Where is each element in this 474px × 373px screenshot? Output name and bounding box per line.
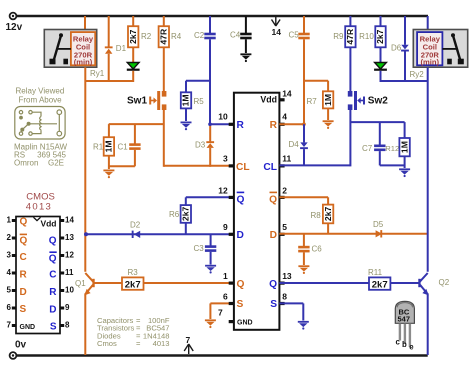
resistor R12 1M with ground (385, 122, 410, 168)
resistor R10 2k7 (359, 16, 386, 47)
svg-text:S: S (270, 299, 277, 310)
wire relay Ry1 coil down to Q1 collector (84, 67, 86, 272)
svg-text:Cmos: Cmos (97, 339, 117, 348)
svg-text:7: 7 (186, 335, 191, 345)
wire relay Ry2 coil down to Q2 collector (427, 67, 429, 272)
ground under R5 (181, 122, 192, 131)
svg-text:R6: R6 (169, 210, 180, 219)
svg-text:47R: 47R (159, 28, 169, 45)
svg-text:R11: R11 (368, 268, 383, 277)
node 0v rail (10, 339, 428, 359)
resistor R7 1M with ground (304, 81, 333, 120)
wire 12v rail to relay Ry2 coil (427, 16, 429, 31)
pinout stubs right (60, 219, 65, 327)
resistor R3 2k7 (122, 268, 144, 291)
IC pin labels right column (260, 95, 277, 310)
svg-text:4: 4 (7, 268, 12, 277)
svg-text:S: S (20, 304, 27, 315)
relay top view drawing (15, 107, 65, 140)
svg-text:4: 4 (282, 112, 287, 122)
relay Ry1 (44, 30, 96, 68)
svg-text:Q: Q (20, 217, 28, 228)
wire pin 5 D to Q2 collector node (long) (279, 233, 427, 235)
svg-text:R2: R2 (141, 32, 152, 41)
svg-text:D: D (237, 230, 244, 241)
svg-text:S: S (237, 299, 244, 310)
svg-text:D3: D3 (195, 140, 206, 149)
svg-text:D4: D4 (289, 140, 300, 149)
svg-text:e: e (409, 343, 414, 352)
capacitor C6 with ground (298, 234, 322, 265)
svg-text:Q: Q (237, 279, 245, 290)
LED indicator (left, green) (127, 47, 140, 82)
svg-text:D6: D6 (391, 44, 402, 53)
svg-text:6: 6 (7, 303, 12, 312)
resistor R5 1M with ground (181, 81, 210, 121)
wire pin 1 Q output to R3 (94, 282, 234, 284)
svg-text:CL: CL (236, 162, 250, 173)
svg-text:GND: GND (237, 320, 253, 327)
svg-text:(min): (min) (74, 58, 93, 67)
resistor R8 2k7 (311, 205, 334, 234)
junction dot on Ry1 coil line (84, 232, 88, 236)
svg-text:1M: 1M (181, 94, 191, 106)
svg-text:12: 12 (218, 185, 228, 195)
pinout labels right (Vdd + FF2 blue) (40, 219, 57, 333)
wire C7/R12 bottom junction (380, 164, 405, 166)
svg-text:=: = (136, 339, 141, 348)
svg-text:7: 7 (7, 320, 12, 329)
pinout numbers right (65, 215, 74, 329)
svg-text:C7: C7 (362, 144, 373, 153)
node 12v supply rail (6, 13, 429, 33)
svg-text:D2: D2 (130, 220, 141, 229)
ground under R7 (323, 120, 334, 129)
resistor R2 2k7 (128, 16, 152, 47)
svg-text:Sw1: Sw1 (127, 95, 147, 106)
wire Sw1 node to R1/C1 (109, 123, 164, 125)
svg-text:S: S (50, 322, 57, 333)
svg-text:D5: D5 (373, 220, 384, 229)
ground under C6 (298, 265, 309, 274)
svg-text:R7: R7 (307, 97, 318, 106)
wire R4 to Sw1 (163, 47, 165, 91)
svg-text:13: 13 (65, 233, 74, 242)
wire pin 8 S to ground (279, 303, 303, 320)
svg-text:C: C (49, 270, 56, 281)
svg-text:9: 9 (65, 303, 70, 312)
ground under R1 (103, 170, 114, 179)
pin 7 marker arrow on 0v rail (184, 344, 193, 354)
svg-text:2: 2 (7, 233, 12, 242)
pinout stubs left (12, 219, 17, 327)
svg-text:From Above: From Above (19, 96, 63, 105)
note relay part numbers (14, 142, 68, 167)
diode D1 (flyback) (105, 16, 127, 82)
svg-text:Q2: Q2 (439, 278, 450, 287)
svg-text:547: 547 (398, 315, 411, 324)
svg-text:2k7: 2k7 (128, 29, 138, 44)
ground under pin 6 wire (205, 319, 216, 328)
svg-text:c: c (396, 338, 401, 347)
LED indicator (right, green) (374, 47, 387, 82)
ground under pin 8 wire (298, 321, 309, 330)
svg-text:11: 11 (65, 268, 74, 277)
notch (34, 217, 41, 220)
svg-text:8: 8 (65, 320, 70, 329)
pin stubs left (229, 123, 234, 324)
svg-text:Q: Q (269, 194, 277, 205)
svg-text:R9: R9 (333, 32, 344, 41)
svg-text:2: 2 (282, 185, 287, 195)
junction dot pin4 node (302, 122, 306, 126)
svg-text:C4: C4 (230, 31, 241, 40)
svg-text:10: 10 (65, 285, 74, 294)
svg-text:R8: R8 (311, 211, 322, 220)
svg-text:2k7: 2k7 (375, 29, 385, 44)
resistor R1 1M (93, 124, 114, 169)
wire pin 4 R to C5 node (279, 123, 304, 125)
svg-text:4013: 4013 (153, 339, 170, 348)
svg-text:CL: CL (263, 162, 277, 173)
wire junction horizontal coil/D1/LED node (85, 80, 133, 82)
svg-text:2k7: 2k7 (372, 280, 388, 291)
relay Ry2 (413, 30, 467, 68)
svg-text:D: D (270, 230, 277, 241)
diode D5 (373, 220, 384, 238)
wire Sw2 down to pin 11 line (349, 110, 351, 166)
svg-text:D1: D1 (116, 44, 127, 53)
switch Sw2 (push-to-make) (348, 91, 388, 110)
svg-text:R12: R12 (385, 144, 399, 153)
svg-text:Q: Q (49, 236, 57, 247)
svg-text:R: R (49, 287, 57, 298)
svg-text:Q: Q (49, 254, 57, 265)
svg-text:8: 8 (282, 291, 287, 301)
resistor R11 2k7 (368, 268, 390, 291)
svg-text:R1: R1 (93, 143, 104, 152)
pinout numbers left (7, 215, 12, 329)
svg-text:14: 14 (272, 27, 282, 37)
svg-text:9: 9 (223, 222, 228, 232)
IC U1 CMOS 4013 body (234, 93, 280, 330)
capacitor C3 with ground (194, 234, 217, 264)
svg-text:Vdd: Vdd (260, 95, 277, 105)
svg-text:(min): (min) (421, 58, 440, 67)
svg-text:C6: C6 (312, 245, 323, 254)
diode D3 (195, 124, 214, 167)
svg-text:R: R (270, 120, 278, 131)
wire pin 9 D input (long) (86, 233, 234, 235)
svg-text:R3: R3 (128, 268, 139, 277)
svg-text:3: 3 (7, 250, 12, 259)
svg-text:1M: 1M (104, 140, 114, 152)
svg-text:12v: 12v (6, 22, 23, 33)
wire pin 3 CL input (164, 165, 234, 167)
svg-text:G2E: G2E (48, 159, 64, 168)
svg-text:C2: C2 (194, 31, 205, 40)
svg-text:1M: 1M (399, 141, 409, 153)
wire pin 13 Q to R11 (279, 282, 418, 284)
wire Q1 emitter to 0v (84, 294, 86, 356)
svg-text:GND: GND (20, 324, 36, 331)
svg-text:D: D (49, 305, 56, 316)
wire Sw2 node to C7/R12 (350, 121, 404, 123)
svg-text:Ry1: Ry1 (90, 69, 105, 78)
svg-text:12: 12 (65, 250, 74, 259)
svg-text:C1: C1 (118, 143, 129, 152)
capacitor C5 (289, 16, 310, 124)
svg-text:0v: 0v (15, 339, 27, 350)
wire Q2 emitter to 0v (427, 294, 429, 356)
svg-text:C3: C3 (194, 244, 205, 253)
wire pin 2 to R8 (279, 197, 328, 205)
resistor R6 2k7 (169, 205, 191, 234)
svg-text:R10: R10 (359, 32, 374, 41)
svg-text:1M: 1M (323, 94, 333, 106)
diode D4 (289, 124, 308, 165)
transistor Q1 (84, 273, 94, 295)
pin numbers left (218, 112, 228, 318)
wire R9 to Sw2 (349, 47, 351, 91)
wire R1 to C1 bottom junction (109, 165, 135, 167)
svg-text:R: R (237, 120, 245, 131)
svg-text:Q: Q (20, 236, 28, 247)
wire 12v rail to relay Ry1 coil (84, 16, 86, 31)
svg-text:14: 14 (65, 215, 74, 224)
svg-text:11: 11 (282, 153, 291, 163)
svg-text:7: 7 (218, 308, 223, 318)
ground under R12 (399, 168, 410, 177)
pinout labels left (FF1 orange) (20, 217, 28, 316)
svg-text:5: 5 (7, 285, 12, 294)
switch Sw1 (push-to-make) (127, 91, 166, 110)
svg-text:R4: R4 (171, 32, 182, 41)
svg-text:Relay Viewed: Relay Viewed (16, 87, 65, 96)
note CMOS 4013 title (26, 192, 55, 213)
svg-text:Q: Q (269, 279, 277, 290)
ground under C3 (205, 265, 216, 274)
svg-text:D: D (20, 287, 27, 298)
svg-text:5: 5 (282, 222, 287, 232)
svg-text:C5: C5 (289, 31, 300, 40)
resistor R4 47R (159, 16, 182, 47)
resistor R9 47R (333, 16, 355, 47)
svg-text:Q1: Q1 (75, 279, 86, 288)
wire Sw1 down to CL line (163, 110, 165, 167)
capacitor C1 (118, 124, 141, 166)
svg-text:1: 1 (7, 215, 12, 224)
svg-text:Q: Q (237, 194, 245, 205)
capacitor C2 (194, 16, 216, 124)
junction dot pin10 node (208, 122, 212, 126)
wire pin 11 CL to Sw2 (279, 164, 349, 166)
capacitor C4 with ground (230, 16, 252, 53)
wire pin 6 S to ground (210, 303, 234, 319)
svg-text:R5: R5 (194, 97, 205, 106)
svg-text:2k7: 2k7 (323, 207, 333, 222)
note relay viewed from above (16, 87, 65, 105)
diode D2 (130, 220, 141, 238)
svg-text:Omron: Omron (14, 159, 38, 168)
IC pin labels left column (236, 120, 250, 310)
svg-text:13: 13 (282, 271, 292, 281)
svg-text:1: 1 (223, 271, 228, 281)
svg-text:2k7: 2k7 (125, 280, 141, 291)
svg-text:47R: 47R (345, 28, 355, 45)
svg-text:b: b (402, 340, 407, 349)
pin 14 marker arrow on 12v rail (272, 17, 281, 26)
transistor Q2 (418, 273, 428, 295)
svg-text:Ry2: Ry2 (410, 70, 425, 79)
svg-text:Vdd: Vdd (40, 219, 56, 229)
wire pin 10 R input (210, 123, 234, 125)
ground under C4 (240, 53, 251, 62)
wire junction horizontal LED/D6/coil node (381, 80, 428, 82)
svg-text:14: 14 (282, 89, 292, 99)
pin stubs right (279, 98, 284, 305)
svg-text:3: 3 (223, 153, 228, 163)
diode D6 (flyback) (391, 16, 409, 82)
pin numbers right (282, 89, 292, 302)
svg-text:C: C (20, 252, 27, 263)
transistor BC547 package drawing (395, 301, 414, 351)
wire pin 12 to R6 (186, 197, 234, 206)
svg-text:R: R (20, 270, 28, 281)
svg-text:4013: 4013 (26, 201, 52, 212)
svg-text:2k7: 2k7 (181, 207, 191, 222)
svg-text:Sw2: Sw2 (368, 95, 388, 106)
capacitor C7 (362, 122, 386, 165)
diagram 4013 pinout body (16, 217, 60, 334)
svg-text:10: 10 (218, 112, 228, 122)
svg-text:6: 6 (223, 291, 228, 301)
note component spec list (97, 316, 170, 348)
